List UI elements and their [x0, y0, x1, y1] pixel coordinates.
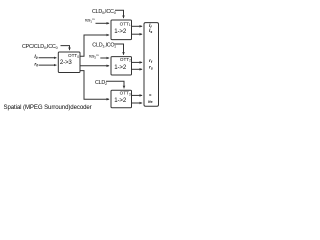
svg-text:OTT0: OTT0: [68, 53, 79, 59]
svg-text:c: c: [149, 92, 152, 97]
svg-text:Spatial (MPEG Surround)decoder: Spatial (MPEG Surround)decoder: [4, 104, 92, 111]
svg-text:CLD1,ICC1: CLD1,ICC1: [92, 43, 116, 49]
svg-text:r0: r0: [34, 61, 38, 67]
svg-text:lfe: lfe: [148, 100, 152, 104]
svg-text:l0: l0: [34, 54, 37, 60]
svg-text:2->3: 2->3: [60, 59, 73, 66]
svg-text:OTT2: OTT2: [120, 57, 131, 63]
svg-text:1->2: 1->2: [114, 28, 127, 35]
svg-text:OTT3: OTT3: [120, 91, 131, 97]
svg-text:CLD2: CLD2: [95, 80, 107, 86]
svg-text:CPC/CLD0,ICC0: CPC/CLD0,ICC0: [22, 44, 58, 50]
svg-text:OTT1: OTT1: [120, 21, 131, 27]
svg-text:CLD0,ICC0: CLD0,ICC0: [92, 9, 116, 15]
svg-text:rs: rs: [149, 64, 153, 70]
svg-text:rf: rf: [149, 58, 153, 64]
svg-text:res1m: res1m: [85, 17, 95, 23]
svg-text:1->2: 1->2: [114, 64, 127, 71]
svg-text:res2m: res2m: [89, 53, 99, 59]
svg-text:1->2: 1->2: [114, 97, 127, 104]
